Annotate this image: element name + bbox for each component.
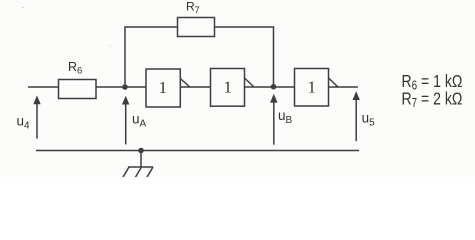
node B junction dot: [271, 84, 277, 90]
wire R7 to top right corner: [215, 26, 275, 28]
wire top left to R7: [124, 26, 177, 28]
amplifier U2 output triangle notch: [245, 78, 255, 87]
amplifier U3 output triangle notch: [329, 78, 339, 87]
label u4: [17, 114, 31, 132]
resistor R6: [59, 80, 97, 99]
amplifier U3 gain value 1: [308, 78, 316, 97]
ground (chassis) symbol: [123, 167, 154, 178]
svg-text:1: 1: [308, 78, 316, 97]
svg-text:1: 1: [224, 78, 232, 97]
voltage arrow uA: [122, 96, 129, 145]
voltage arrow u4: [33, 95, 40, 138]
label uA: [132, 112, 147, 130]
wire node A up (feedback left vertical): [124, 27, 126, 87]
node A junction dot: [122, 84, 128, 90]
ground stem wire: [140, 151, 142, 168]
label u5: [362, 111, 376, 129]
wire feedback right vertical down to node B: [273, 27, 275, 87]
wire U2 to node B to U3: [245, 86, 295, 88]
svg-text:uB: uB: [278, 108, 293, 126]
svg-text:R7 = 2 kΩ: R7 = 2 kΩ: [402, 89, 463, 111]
svg-text:uA: uA: [132, 112, 147, 130]
amplifier U1 output triangle notch: [180, 79, 190, 88]
svg-text:R6: R6: [68, 60, 82, 77]
svg-text:u4: u4: [17, 114, 31, 132]
svg-text:R7: R7: [186, 0, 200, 15]
label R7: [186, 0, 200, 15]
value text R7 = 2 kOhm: [402, 89, 463, 111]
label uB: [278, 108, 293, 126]
wire U3 output: [329, 86, 359, 88]
voltage arrow uB: [270, 94, 277, 145]
ground junction dot: [138, 148, 144, 154]
amplifier U1 gain value 1: [159, 78, 167, 97]
resistor R7: [178, 18, 215, 37]
amplifier U1 box: [146, 69, 180, 107]
wire input terminal to R6: [28, 86, 59, 88]
svg-text:u5: u5: [362, 111, 376, 129]
wire bottom rail: [36, 150, 359, 152]
svg-text:1: 1: [159, 78, 167, 97]
voltage arrow u5: [353, 91, 360, 141]
value text R6 = 1 kOhm: [402, 71, 463, 93]
scan speck: [22, 7, 111, 47]
wire U1 to U2: [180, 86, 210, 88]
label R6: [68, 60, 82, 77]
wire R6 to node A: [96, 86, 146, 88]
amplifier U2 box: [211, 69, 245, 107]
amplifier U2 gain value 1: [224, 78, 232, 97]
amplifier U3 box: [295, 69, 329, 107]
